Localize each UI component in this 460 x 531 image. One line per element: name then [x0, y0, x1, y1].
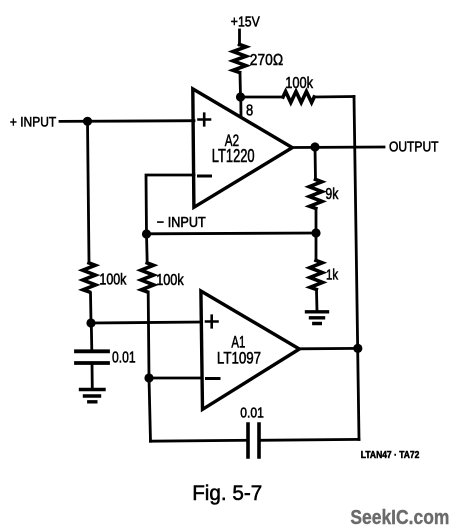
junction dot A2 output node — [310, 142, 319, 151]
wire: A2 output to OUTPUT — [293, 146, 384, 149]
wire: divider node down to R1k — [315, 233, 318, 261]
junction dot divider node — [311, 228, 320, 237]
wire: R100k mid down to A1 minus node — [147, 293, 151, 378]
wire: R100k to right rail — [314, 95, 354, 98]
svg-text:Fig. 5-7: Fig. 5-7 — [192, 481, 262, 505]
wire: R100k left to node C — [89, 293, 92, 323]
svg-text:0.01: 0.01 — [112, 349, 136, 366]
wire: node C to A1 plus input — [91, 322, 202, 323]
node 8 junction dot — [236, 92, 245, 101]
wire: 270 ohm to node8 — [239, 73, 242, 98]
wire: R1k to ground — [315, 291, 318, 312]
svg-text:LT1097: LT1097 — [217, 348, 261, 367]
svg-text:9k: 9k — [325, 186, 339, 203]
svg-text:100k: 100k — [99, 272, 126, 289]
wire: R9k to divider node — [315, 210, 318, 234]
wire: A1 minus node down to bottom rail — [149, 378, 151, 441]
svg-text:270Ω: 270Ω — [250, 52, 283, 69]
op-amp A2 plus symbol — [199, 114, 211, 126]
wire: node8 to A2 pin 8 — [239, 97, 242, 118]
svg-text:8: 8 — [246, 102, 253, 119]
wire: output node down to R9k — [314, 147, 317, 180]
wire: A2 minus input to feedback corner — [146, 175, 194, 234]
wire: A1 output to right rail — [299, 347, 358, 350]
wire: node C to capacitor C1 — [90, 323, 93, 351]
svg-text:OUTPUT: OUTPUT — [389, 139, 439, 155]
wire: right vertical rail — [354, 97, 359, 440]
resistor R100k mid — [141, 263, 154, 292]
resistor R100k top — [283, 92, 314, 103]
svg-text:1k: 1k — [326, 266, 338, 283]
wire: bottom rail left segment — [151, 439, 249, 443]
wire: A1 minus node to A1 minus input — [149, 377, 202, 380]
junction dot A1 output on rail — [353, 344, 362, 353]
svg-text:LT1220: LT1220 — [212, 146, 255, 166]
svg-text:SeekIC.com: SeekIC.com — [350, 506, 449, 529]
resistor R 1k — [310, 261, 323, 290]
capacitor C1 0.01 left — [76, 351, 108, 363]
junction dot node C — [86, 318, 95, 327]
junction dot -input node — [142, 229, 151, 238]
ground symbol under R1k — [307, 312, 328, 324]
op-amp U A2 triangle — [193, 89, 292, 207]
svg-text:− INPUT: − INPUT — [157, 215, 206, 231]
svg-text:100k: 100k — [285, 75, 314, 92]
svg-text:0.01: 0.01 — [240, 405, 264, 421]
junction dot A1 minus node — [144, 373, 153, 382]
wire: node8 to R100k top — [241, 96, 284, 99]
wire: +15V stub — [238, 30, 241, 45]
op-amp A1 minus symbol — [207, 377, 220, 380]
capacitor C2 0.01 bottom — [248, 424, 259, 457]
svg-text:+ INPUT: + INPUT — [10, 114, 56, 129]
svg-text:+15V: +15V — [231, 14, 260, 31]
wire: +input node down to R100k left — [88, 121, 90, 263]
junction dot +input node — [83, 117, 92, 126]
op-amp A2 minus symbol — [199, 175, 211, 178]
resistor R100k left — [83, 263, 96, 292]
wire: C1 to ground — [91, 363, 94, 390]
resistor R 9k — [309, 180, 322, 209]
op-amp A1 plus symbol — [206, 316, 218, 328]
op-amp U A1 triangle — [201, 291, 300, 409]
resistor R 270 ohm — [233, 45, 246, 73]
ground symbol under C1 — [81, 390, 105, 402]
wire: -input node horizontal to 9k/1k node — [147, 232, 317, 236]
svg-text:100k: 100k — [156, 272, 184, 289]
wire: bottom rail right segment — [259, 438, 359, 442]
svg-text:LTAN47 · TA72: LTAN47 · TA72 — [361, 450, 420, 461]
wire: -input node down to R100k mid — [145, 234, 148, 263]
wire: +INPUT to A2 plus input — [60, 119, 194, 123]
